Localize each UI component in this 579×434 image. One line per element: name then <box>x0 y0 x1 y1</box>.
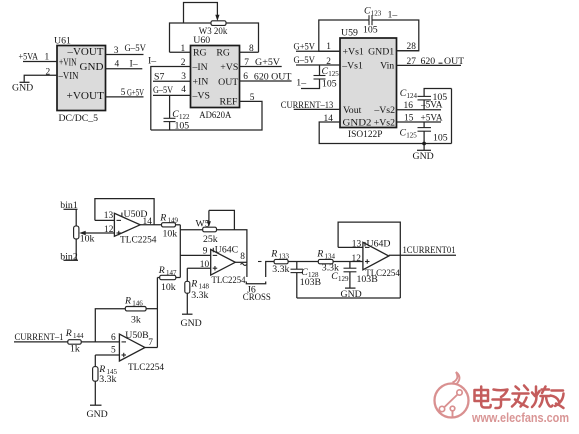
watermark logo circle <box>435 372 469 418</box>
wire U50B pin 5 <box>95 354 119 356</box>
svg-text:–Vs1: –Vs1 <box>341 61 363 72</box>
wire bin2 to potentiometer <box>75 239 77 260</box>
svg-text:CURRENT–1: CURRENT–1 <box>15 332 64 343</box>
svg-text:OUT: OUT <box>218 77 238 88</box>
refdes C125 (input side) <box>322 66 340 78</box>
svg-text:bin2: bin2 <box>60 252 78 263</box>
svg-text:R: R <box>270 248 277 259</box>
refdes R147 <box>158 265 177 277</box>
wire net CURRENT-1 <box>14 341 68 343</box>
capacitor C123 with isolation loop wire <box>319 15 419 51</box>
refdes R149 <box>159 213 178 225</box>
svg-text:10k: 10k <box>161 282 176 293</box>
svg-text:TLC2254: TLC2254 <box>212 275 246 286</box>
wire U60 pin 1 <box>170 51 191 53</box>
wire U60 pin 3 / net S7 <box>153 80 191 82</box>
svg-text:Vin: Vin <box>380 61 394 72</box>
svg-text:TLC2254: TLC2254 <box>120 234 157 245</box>
wire R133 to R134 <box>288 261 318 263</box>
ground (R145) <box>87 405 108 420</box>
wire J6 pin 2 to R133 <box>266 262 274 278</box>
wire net CURRENT-13 to Vout <box>294 108 340 110</box>
svg-text:G+5V: G+5V <box>294 41 316 52</box>
resistor R146 body <box>125 307 146 311</box>
wire W5 left lead <box>180 229 202 231</box>
svg-text:+VOUT: +VOUT <box>67 90 105 102</box>
wire -5VA decoupling right rail <box>451 89 453 144</box>
svg-text:S7: S7 <box>154 72 164 83</box>
wire W5 right lead to output node <box>217 230 247 277</box>
svg-text:6: 6 <box>111 333 116 343</box>
svg-text:GND: GND <box>87 409 108 420</box>
svg-text:105: 105 <box>363 25 378 36</box>
svg-text:14: 14 <box>324 114 334 124</box>
svg-text:ISO122P: ISO122P <box>348 129 383 140</box>
wire U64D pin 13 <box>338 246 363 248</box>
svg-text:5: 5 <box>250 93 255 103</box>
svg-text:15: 15 <box>404 113 414 123</box>
svg-text:U60: U60 <box>193 35 210 46</box>
wire W5 wiper arrow <box>207 210 211 227</box>
svg-text:GND: GND <box>80 61 104 73</box>
svg-text:DC/DC_5: DC/DC_5 <box>59 113 99 124</box>
wire U60 pin 7 <box>240 66 282 68</box>
svg-text:CROSS: CROSS <box>243 292 271 303</box>
resistor R149 body <box>162 223 176 227</box>
svg-text:9: 9 <box>203 247 208 257</box>
refdes C123 <box>364 6 382 18</box>
svg-text:13: 13 <box>104 211 114 221</box>
capacitor C124 <box>418 89 452 110</box>
wire U60 pin 8 <box>240 51 259 53</box>
svg-text:1–: 1– <box>388 10 398 21</box>
wire R144 to U50B pin 6 <box>81 341 119 343</box>
capacitor C128 <box>291 262 304 299</box>
wire U64D bottom return <box>297 297 401 299</box>
svg-text:+VIN: +VIN <box>59 57 77 69</box>
svg-text:5: 5 <box>111 346 116 356</box>
resistor R134 body <box>318 259 333 263</box>
refdes R134 <box>316 248 335 260</box>
svg-text:U64D: U64D <box>367 238 391 249</box>
svg-text:RG: RG <box>216 47 230 58</box>
ground (C129) <box>341 288 362 300</box>
svg-text:10k: 10k <box>163 228 178 239</box>
svg-text:R: R <box>158 265 165 276</box>
svg-text:2: 2 <box>46 67 51 77</box>
artifact squiggle below pin 8 <box>241 264 247 266</box>
svg-text:R: R <box>159 213 166 224</box>
svg-text:U59: U59 <box>341 28 358 39</box>
wire U59 pin 1 <box>296 50 340 52</box>
wire U59 pin 14 / GND2 return <box>319 122 451 144</box>
svg-text:12: 12 <box>104 225 114 235</box>
wire U59 pin 2 <box>296 64 340 66</box>
svg-text:3: 3 <box>114 46 119 56</box>
op-amp U64C <box>211 250 236 276</box>
svg-text:105: 105 <box>322 79 337 90</box>
wire U59 pin 27 <box>397 64 462 66</box>
wire R146 feedback left leg <box>95 309 125 342</box>
svg-text:GND: GND <box>12 83 33 94</box>
refdes C122 <box>172 109 190 121</box>
svg-text:1: 1 <box>45 52 50 62</box>
svg-text:10k: 10k <box>80 233 95 244</box>
svg-text:3.3k: 3.3k <box>191 290 208 301</box>
svg-text:+IN: +IN <box>193 77 209 88</box>
refdes R144 <box>65 328 84 340</box>
svg-text:G+5V: G+5V <box>255 57 280 68</box>
refdes U50D <box>122 209 148 220</box>
svg-text:125: 125 <box>328 70 339 78</box>
svg-text:144: 144 <box>73 332 84 340</box>
svg-text:G–5V: G–5V <box>294 55 316 66</box>
wire U50B output pin 7 <box>145 347 157 349</box>
wire R149 to summing node <box>176 224 181 226</box>
svg-text:105: 105 <box>433 133 448 144</box>
svg-text:2: 2 <box>181 58 186 68</box>
svg-text:–VOUT: –VOUT <box>67 46 104 58</box>
refdes C124 <box>400 88 418 100</box>
junction GND2 rail <box>422 142 426 146</box>
svg-text:W5: W5 <box>196 218 210 229</box>
svg-text:CURRENT–13: CURRENT–13 <box>281 100 334 111</box>
svg-text:1: 1 <box>326 42 331 52</box>
svg-text:+VS: +VS <box>220 62 238 73</box>
svg-text:REF: REF <box>220 97 239 108</box>
svg-text:105: 105 <box>433 92 448 103</box>
wire R146 right leg to R147 node <box>146 308 157 310</box>
wire U64C pin 10 <box>187 267 210 269</box>
wire U60 pin 2 / net I- <box>151 67 191 131</box>
wire U61 pin 1 <box>23 61 57 63</box>
svg-text:1: 1 <box>181 44 186 54</box>
wire U59 pin 28 <box>397 50 420 52</box>
svg-text:AD620A: AD620A <box>199 110 231 121</box>
svg-text:28: 28 <box>407 42 417 52</box>
potentiometer W3 wiper wire <box>184 3 218 24</box>
svg-text:16: 16 <box>404 101 414 111</box>
svg-text:129: 129 <box>338 275 349 283</box>
ground (U61 -VIN) <box>12 82 33 93</box>
capacitor C129 <box>344 262 357 289</box>
op-amp U64D <box>363 242 389 269</box>
svg-text:1k: 1k <box>70 344 80 355</box>
net label 620_OUT <box>421 56 465 67</box>
svg-text:7: 7 <box>148 338 153 348</box>
wire REF return loop <box>151 101 262 130</box>
svg-text:R: R <box>124 295 131 306</box>
wire W5 wiper to right lead loop <box>209 210 235 229</box>
svg-text:U61: U61 <box>54 36 71 47</box>
svg-text:I–: I– <box>130 59 138 70</box>
resistor R147 body <box>160 275 176 279</box>
svg-text:123: 123 <box>371 10 382 18</box>
net label bin1 <box>60 200 78 211</box>
wire U64C pin 9 <box>180 254 210 256</box>
svg-text:13: 13 <box>352 239 362 249</box>
wire U50D pin 13 <box>95 219 115 221</box>
svg-text:6: 6 <box>243 72 248 82</box>
potentiometer W5 body <box>203 227 217 232</box>
refdes R133 <box>270 248 289 260</box>
svg-text:10: 10 <box>200 260 210 270</box>
svg-text:GND: GND <box>413 151 434 162</box>
refdes R145 <box>98 364 117 376</box>
svg-text:TLC2254: TLC2254 <box>128 362 164 373</box>
svg-text:5: 5 <box>121 88 126 98</box>
svg-text:G+5V: G+5V <box>127 87 144 98</box>
svg-text:RG: RG <box>193 47 207 58</box>
svg-text:–IN: –IN <box>192 62 208 73</box>
wire U50D feedback loop <box>95 199 154 225</box>
svg-text:3.3k: 3.3k <box>272 264 289 275</box>
svg-text:4: 4 <box>181 85 186 95</box>
svg-text:12: 12 <box>352 254 362 264</box>
svg-text:www.elecfans.com: www.elecfans.com <box>471 410 569 425</box>
wire U59 pin 15 <box>397 121 442 123</box>
svg-text:TLC2254: TLC2254 <box>365 268 400 279</box>
svg-text:+5VA: +5VA <box>19 52 39 63</box>
ground (R148) <box>181 314 202 329</box>
wire bin1 to potentiometer <box>75 209 77 226</box>
svg-text:3: 3 <box>181 72 186 82</box>
svg-text:8: 8 <box>249 44 254 54</box>
resistor R145 with wire <box>93 355 98 405</box>
op-amp U50B <box>119 334 145 361</box>
capacitor C125 (input side) <box>301 65 326 89</box>
svg-text:GND2: GND2 <box>343 118 372 129</box>
wire U50B output vertical node <box>156 278 158 348</box>
wire U59 pin 16 <box>397 109 442 111</box>
svg-text:U50B: U50B <box>125 330 149 341</box>
svg-text:620 OUT: 620 OUT <box>254 71 292 82</box>
svg-text:R: R <box>65 328 72 339</box>
capacitor C122 <box>164 95 176 130</box>
wire R134 to U64D pin 12 <box>333 261 363 263</box>
wire U64D output <box>389 254 456 256</box>
wire summing node vertical <box>179 225 181 278</box>
svg-text:–Vs2: –Vs2 <box>373 105 395 116</box>
dc/dc converter U61 <box>57 46 106 111</box>
refdes U64D <box>365 238 390 249</box>
svg-text:7: 7 <box>244 58 249 68</box>
svg-text:4: 4 <box>115 60 120 70</box>
refdes R146 <box>124 295 143 307</box>
net label bin2 <box>60 252 78 263</box>
svg-text:103B: 103B <box>300 277 322 288</box>
wire U61 pin 4 <box>106 68 143 70</box>
svg-text:14: 14 <box>143 217 153 227</box>
op-amp U50D <box>114 213 140 236</box>
ground (U59 output side) <box>413 150 434 162</box>
svg-text:U64C: U64C <box>215 244 238 255</box>
svg-text:–VIN: –VIN <box>58 70 79 82</box>
svg-text:G–5V: G–5V <box>125 43 147 54</box>
wire U50D output pin 14 <box>140 224 161 226</box>
watermark text dianzifashaoyou <box>475 386 564 409</box>
svg-text:+Vs1: +Vs1 <box>343 47 364 58</box>
svg-text:124: 124 <box>407 92 418 100</box>
refdes C129 <box>331 271 349 283</box>
svg-text:G–5V: G–5V <box>153 85 173 96</box>
svg-text:GND1: GND1 <box>368 47 394 58</box>
svg-text:1CURRENT01: 1CURRENT01 <box>403 245 456 256</box>
wire U64D feedback loop <box>338 222 400 298</box>
wire U61 pin 2 <box>24 75 57 82</box>
refdes U64C <box>213 244 238 255</box>
refdes C128 <box>301 267 319 279</box>
svg-text:1–: 1– <box>296 78 306 89</box>
potentiometer W3 wiper arrowhead <box>215 15 219 21</box>
isolation amplifier U59 ISO122P <box>340 38 397 129</box>
svg-text:–VS: –VS <box>192 91 210 102</box>
wire U60 pin 4 / net G-5V <box>153 94 191 96</box>
svg-text:I–: I– <box>148 56 156 67</box>
svg-text:OUT: OUT <box>444 56 464 67</box>
svg-text:8: 8 <box>240 252 245 262</box>
connector J6 CROSS <box>246 282 265 284</box>
svg-text:125: 125 <box>406 131 417 139</box>
resistor R144 body <box>68 340 81 345</box>
instrumentation amplifier U60 AD620A <box>191 46 240 108</box>
resistor R148 with wire <box>185 268 190 314</box>
svg-text:27: 27 <box>407 57 417 67</box>
wire U61 pin 3 <box>106 54 144 56</box>
capacitor C125 (output side) <box>418 122 432 150</box>
svg-text:620: 620 <box>421 56 436 67</box>
svg-text:+5VA: +5VA <box>421 112 443 123</box>
refdes R148 <box>190 279 209 291</box>
wire pot wiper to U50D pin 12 with arrowhead <box>79 231 114 235</box>
svg-text:3k: 3k <box>131 314 141 325</box>
wire R147 left lead <box>157 277 159 279</box>
potentiometer W3 body <box>211 21 226 26</box>
svg-text:R: R <box>316 248 323 259</box>
svg-text:3.3k: 3.3k <box>99 374 116 385</box>
wire RG loop top <box>170 23 259 52</box>
svg-text:+Vs2: +Vs2 <box>374 118 395 129</box>
svg-text:Vout: Vout <box>343 105 362 116</box>
svg-text:R: R <box>190 279 197 290</box>
artifact dash left of R133 lead <box>258 261 262 263</box>
refdes C125 (output side) <box>400 127 418 139</box>
potentiometer bin 10k body <box>74 226 79 239</box>
wire U64C output pin 8 <box>235 261 247 263</box>
wire R147 right lead <box>176 277 181 279</box>
wire U61 pin 5 <box>106 96 144 98</box>
resistor R133 body <box>274 259 288 263</box>
svg-text:GND: GND <box>181 318 202 329</box>
wire U60 pin 6 <box>240 80 292 82</box>
